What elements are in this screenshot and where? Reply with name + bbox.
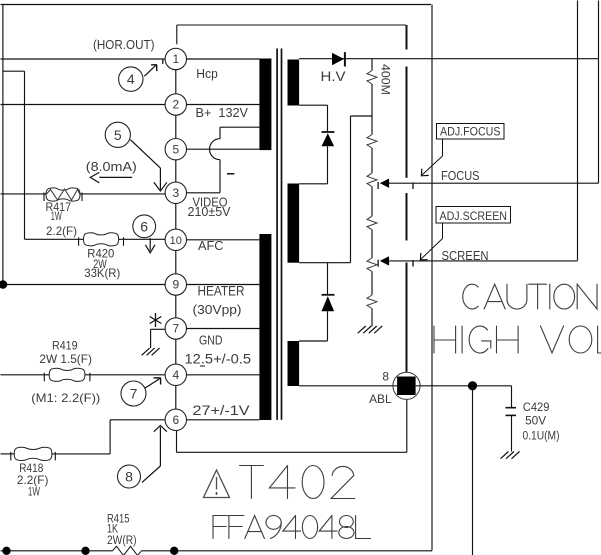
svg-text:400M: 400M — [379, 64, 391, 95]
transformer pin 1 — [165, 48, 186, 69]
label R417 1W — [51, 209, 62, 223]
wire pin9 to primary bar — [187, 284, 260, 286]
svg-text:5: 5 — [172, 142, 179, 156]
label T402 — [240, 466, 355, 499]
label R418 1W — [28, 485, 40, 499]
transformer secondary winding bar seg3 — [288, 341, 300, 386]
label R415 2W(R) — [107, 535, 137, 547]
screen rail dash tick — [412, 260, 414, 267]
wire R417 pin3 — [1, 193, 166, 195]
focus tap arrow — [378, 179, 389, 190]
label Hcp — [196, 66, 218, 81]
wire pin7 to primary bar — [187, 328, 260, 330]
label (30Vpp) — [193, 302, 242, 317]
resistor R417 — [44, 188, 82, 201]
wire right edge vertical 1 — [577, 1, 579, 261]
label 400M — [379, 64, 391, 95]
svg-text:6: 6 — [140, 219, 148, 235]
capacitor C429 — [506, 386, 517, 452]
svg-text:1: 1 — [172, 52, 179, 66]
label (M1: 2.2(F)) — [31, 391, 100, 405]
wire pin1 to primary bar — [187, 58, 260, 60]
wire dashed-box right (long dashes) — [406, 25, 408, 372]
svg-text:50V: 50V — [525, 416, 546, 428]
node junction dot bottom rail mid — [81, 547, 89, 555]
wire H.V rail — [299, 58, 598, 60]
callout arrow 5 — [130, 140, 167, 191]
wire dashed-box top — [177, 24, 406, 26]
wire pin6 left — [110, 419, 165, 421]
wire video vertical lower — [219, 160, 221, 193]
svg-text:GND: GND — [199, 333, 223, 348]
label HIGH VOLT — [434, 326, 601, 353]
callout circle 6 — [133, 215, 156, 238]
svg-text:7: 7 — [172, 322, 179, 336]
focus rail dash tick — [412, 183, 414, 190]
svg-text:0.1U(M): 0.1U(M) — [523, 431, 560, 443]
diode D2 — [322, 295, 335, 312]
transformer core line 2 — [281, 49, 283, 420]
label (8.0mA) — [86, 159, 137, 174]
svg-text:H.V: H.V — [321, 69, 346, 84]
label R419 — [52, 339, 78, 353]
wire pin1 left — [1, 58, 166, 60]
callout circle 5 — [105, 122, 130, 147]
ground 400M chain — [358, 326, 383, 333]
label 27+/-1V — [193, 403, 250, 418]
transformer core line 1 — [276, 49, 278, 420]
label R417 — [46, 200, 72, 214]
label R420 33K(R) — [84, 266, 120, 280]
label (HOR.OUT) — [93, 37, 155, 52]
ground C429 — [501, 452, 520, 459]
node junction dot bottom rail pin-column — [170, 547, 178, 555]
wire pin6 to primary bar — [187, 419, 260, 421]
svg-text:ABL: ABL — [369, 392, 392, 406]
label HEATER — [198, 284, 245, 299]
wire SCREEN rail — [389, 260, 577, 262]
component ABL bead — [393, 372, 420, 399]
label C429 — [523, 402, 550, 414]
svg-text:ADJ.SCREEN: ADJ.SCREEN — [440, 211, 508, 223]
svg-text:4: 4 — [172, 368, 179, 382]
label AFC — [198, 238, 224, 253]
wire pin2 to primary bar — [187, 104, 260, 106]
wire pin link 4-6 — [175, 386, 177, 410]
wire pin link 10-9 — [175, 251, 177, 274]
callout circle 7 — [121, 381, 146, 406]
resistor R415 zigzag — [113, 546, 142, 555]
wire pin link 1-2 — [175, 70, 177, 94]
svg-text:Hcp: Hcp — [196, 66, 218, 81]
wire pin link 7-4 — [175, 339, 177, 364]
callout circle 4 — [119, 67, 143, 91]
label GND — [199, 333, 223, 348]
label C429 50V — [525, 416, 546, 428]
svg-text:12.5+/-0.5: 12.5+/-0.5 — [185, 352, 252, 367]
wire pin10 to primary bar — [187, 239, 260, 241]
svg-text:1W: 1W — [51, 209, 62, 223]
svg-text:(HOR.OUT): (HOR.OUT) — [93, 37, 155, 52]
svg-text:33K(R): 33K(R) — [84, 266, 120, 280]
screen adjuster arm — [420, 223, 442, 260]
label R415 — [107, 514, 130, 526]
transformer pin 10 — [165, 229, 186, 250]
wire pin link 9-7 — [175, 295, 177, 318]
diode D1 — [322, 132, 335, 146]
svg-text:8: 8 — [125, 469, 133, 485]
wire pin2 left — [1, 104, 166, 106]
svg-text:8: 8 — [382, 370, 389, 384]
wire bottom rail — [1, 550, 433, 552]
wire video vertical upper — [219, 127, 221, 139]
svg-text:210±5V: 210±5V — [188, 204, 231, 219]
wire seg3 bottom to ABL — [299, 385, 397, 387]
wire R420 feed stub — [3, 70, 25, 72]
wire seg2 bottom to D2 — [327, 263, 329, 295]
svg-text:2W 1.5(F): 2W 1.5(F) — [39, 352, 92, 366]
label R415 1K — [107, 524, 118, 536]
label R418 2.2(F) — [17, 473, 49, 487]
label VIDEO — [193, 195, 228, 210]
wire pin3 video horizontal — [186, 192, 220, 194]
svg-text:3: 3 — [172, 186, 179, 200]
svg-text:10: 10 — [170, 235, 182, 247]
wire primary tap step horizontal — [220, 126, 259, 128]
wire pin link 2-5 — [175, 115, 177, 138]
transformer pin 2 — [165, 94, 186, 115]
wire left border — [2, 5, 4, 285]
transformer primary winding bar lower — [259, 234, 271, 420]
svg-text:(8.0mA): (8.0mA) — [86, 159, 137, 174]
wire ABL bottom vertical — [406, 400, 408, 453]
wire D2 to seg3 top — [299, 311, 327, 341]
wire seg1 bottom to D1 — [299, 105, 327, 131]
transformer pin 7 — [165, 318, 186, 339]
wire dashed-box left stub — [176, 25, 178, 44]
svg-text:9: 9 — [172, 278, 179, 292]
callout arrow 6 — [145, 238, 155, 253]
label H.V — [321, 69, 346, 84]
label SCREEN — [442, 249, 489, 263]
wire video hop arc — [210, 139, 221, 160]
focus adjuster arm — [421, 139, 442, 176]
wire pin4 to primary bar — [187, 374, 260, 376]
wire FOCUS rail — [389, 182, 598, 184]
wire pin link 5-3 — [175, 160, 177, 182]
callout arrow 4 — [144, 60, 163, 77]
svg-text:B+ 132V: B+ 132V — [196, 105, 249, 120]
label B+ 132V — [196, 105, 249, 120]
label 12.5+/-0.5 — [185, 352, 252, 367]
diode H.V — [332, 52, 345, 66]
wire pin9 left — [3, 284, 165, 286]
label FFA94048L — [213, 516, 371, 539]
wire R420 pin10 — [25, 238, 166, 240]
svg-text:7: 7 — [130, 386, 138, 402]
label R420 — [87, 247, 114, 261]
resistor R419 — [44, 368, 90, 381]
wire pin6-ABL bottom horizontal — [177, 451, 407, 453]
svg-text:ADJ.FOCUS: ADJ.FOCUS — [440, 127, 501, 139]
label R417 2.2(F) — [46, 224, 77, 238]
resistor R420 — [79, 233, 124, 246]
svg-text:C429: C429 — [523, 402, 550, 414]
svg-text:R419: R419 — [52, 339, 78, 353]
svg-text:SCREEN: SCREEN — [442, 249, 489, 263]
svg-text:5: 5 — [114, 127, 122, 143]
svg-text:2: 2 — [172, 98, 179, 112]
callout arrow 7 — [145, 378, 161, 388]
box ADJ.FOCUS — [437, 124, 505, 140]
wire ABL right — [416, 385, 512, 387]
wire R418 — [1, 453, 111, 455]
wire right edge vertical 2 — [598, 1, 600, 184]
svg-text:(30Vpp): (30Vpp) — [193, 302, 242, 317]
wire pin7 ground stub — [151, 329, 165, 348]
wire R418 riser to pin6 wire — [109, 420, 111, 454]
transformer primary winding bar upper — [259, 59, 271, 151]
svg-text:2.2(F): 2.2(F) — [46, 224, 77, 238]
label 210+-5V — [188, 204, 231, 219]
label CAUTION — [463, 284, 597, 309]
asterisk mark — [150, 313, 162, 327]
screen tap arrow — [378, 256, 389, 267]
wire junction down to edge — [472, 386, 474, 555]
box ADJ.SCREEN — [436, 207, 511, 224]
transformer secondary winding bar seg2 — [288, 184, 300, 263]
transformer pin 3 — [165, 182, 186, 203]
callout arrow 8.0mA — [90, 172, 132, 183]
minus polarity mark — [227, 173, 234, 175]
callout arrow 8 — [142, 426, 167, 483]
wire R419 pin4 — [1, 374, 166, 376]
wire top border — [1, 4, 432, 6]
warning triangle — [204, 470, 230, 498]
svg-text:1W: 1W — [28, 485, 40, 499]
label pin 8 ABL — [382, 370, 389, 384]
wire right block border vertical — [431, 5, 433, 551]
transformer pin 5 — [165, 139, 186, 160]
label ABL — [369, 392, 392, 406]
wire pin6 bottom vertical — [176, 430, 178, 452]
svg-text:6: 6 — [172, 413, 179, 427]
node junction dot bottom rail left — [2, 547, 10, 555]
wire D1 to seg2 top — [299, 146, 327, 184]
ground pin7 — [142, 348, 160, 355]
transformer pin 9 — [165, 274, 186, 295]
svg-text:(M1: 2.2(F)): (M1: 2.2(F)) — [31, 391, 100, 405]
transformer pin 4 — [165, 364, 186, 385]
wire R420 feed vertical — [24, 71, 26, 239]
node junction dot ABL/C429 — [468, 381, 477, 390]
transformer pin 6 — [165, 409, 186, 430]
svg-text:FOCUS: FOCUS — [441, 169, 480, 183]
wire divider riser — [351, 116, 373, 263]
transformer secondary winding bar seg1 — [288, 60, 300, 106]
resistor 400M chain — [367, 59, 377, 327]
callout circle 8 — [118, 465, 141, 488]
resistor R418 — [11, 447, 56, 460]
label R419 2W 1.5(F) — [39, 352, 92, 366]
label R418 — [19, 461, 43, 475]
wire pin5 to primary bar — [187, 148, 260, 150]
svg-text:HEATER: HEATER — [198, 284, 245, 299]
svg-text:4: 4 — [127, 71, 135, 87]
label C429 0.1U(M) — [523, 431, 560, 443]
label FOCUS — [441, 169, 480, 183]
svg-text:27+/-1V: 27+/-1V — [193, 403, 250, 418]
svg-text:2W(R): 2W(R) — [107, 535, 137, 547]
wire seg2 bottom — [299, 262, 350, 264]
label R420 2W — [93, 257, 107, 271]
svg-text:1K: 1K — [107, 524, 118, 536]
svg-text:AFC: AFC — [198, 238, 224, 253]
wire pin link 3-10 — [175, 204, 177, 230]
node junction dot left border / pin9 — [0, 280, 7, 289]
